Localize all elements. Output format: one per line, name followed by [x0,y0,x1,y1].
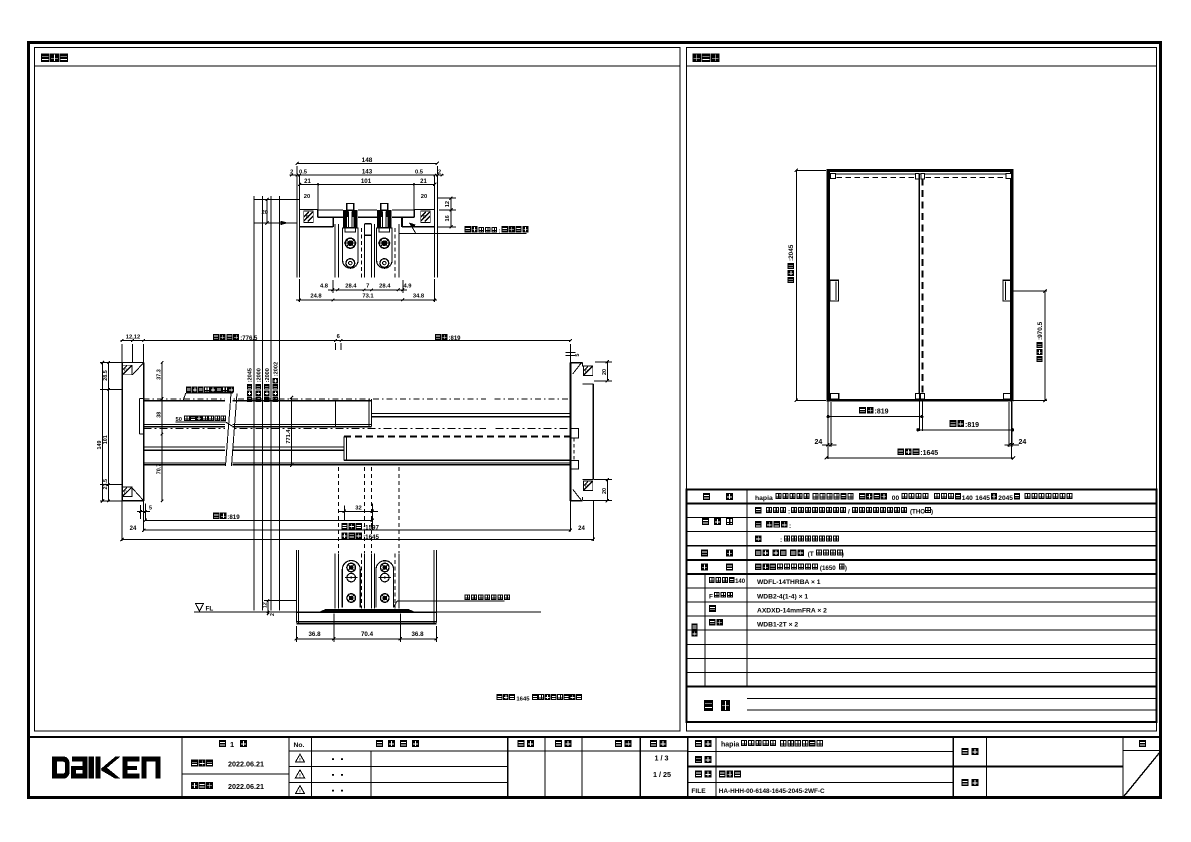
svg-text::819: :819 [965,422,979,429]
svg-text:hapia: hapia [755,495,773,502]
svg-text:28.4: 28.4 [379,284,391,290]
svg-text:148: 148 [362,157,373,164]
svg-text:1: 1 [230,740,234,749]
svg-text:): ) [845,565,847,572]
svg-text:2045: 2045 [998,495,1013,502]
svg-text:143: 143 [362,169,373,176]
svg-text:771.4: 771.4 [286,429,292,444]
svg-text::: : [499,229,501,235]
svg-text:24: 24 [578,526,585,532]
svg-text:23.5: 23.5 [103,479,109,490]
svg-text:24: 24 [130,526,137,532]
svg-text::776.5: :776.5 [240,336,258,342]
svg-text::2002: :2002 [273,362,279,376]
svg-text:C: C [124,490,127,495]
svg-text:36.8: 36.8 [308,631,321,638]
svg-text:FL: FL [206,605,214,612]
svg-text:C: C [585,484,588,489]
svg-text:WDB1-2T × 2: WDB1-2T × 2 [757,621,798,628]
svg-text:28.5: 28.5 [103,370,109,381]
svg-text:12: 12 [445,201,451,207]
svg-text::1645: :1645 [920,450,938,457]
svg-text:38: 38 [157,412,163,418]
svg-text:34.8: 34.8 [413,294,425,300]
svg-text:1645: 1645 [975,495,990,502]
svg-text:1 / 3: 1 / 3 [655,753,669,762]
svg-text:C: C [585,369,588,374]
svg-text:(THO: (THO [910,509,925,516]
svg-text:149: 149 [97,441,103,450]
svg-text:2: 2 [290,170,293,176]
svg-text::2000: :2000 [265,368,271,382]
svg-text:): ) [842,551,844,558]
svg-text::970.5: :970.5 [1037,321,1044,340]
svg-text:4.9: 4.9 [403,284,412,290]
svg-text:101: 101 [103,435,109,444]
svg-text:12,12: 12,12 [126,335,141,341]
svg-text:12: 12 [263,602,269,608]
svg-text:WDB2-4(1-4) × 1: WDB2-4(1-4) × 1 [757,593,808,600]
svg-text::: : [780,537,782,544]
svg-text:2: 2 [270,613,276,616]
svg-text:0.5: 0.5 [299,170,308,176]
svg-text:2022.06.21: 2022.06.21 [228,782,264,791]
svg-text:AXDXD-14mmFRA × 2: AXDXD-14mmFRA × 2 [757,607,827,614]
svg-text::819: :819 [449,336,462,342]
svg-text::819: :819 [875,409,889,416]
svg-text:00: 00 [892,495,900,502]
svg-text::: : [789,523,791,530]
svg-text:1645: 1645 [516,696,530,702]
svg-text:0.5: 0.5 [415,170,424,176]
svg-text:5: 5 [149,506,152,512]
svg-text:(T: (T [808,551,814,558]
svg-text:/: / [848,509,850,516]
svg-text:FILE: FILE [691,788,706,795]
svg-text:C: C [124,368,127,373]
svg-text:20: 20 [304,194,310,200]
svg-text:HA-HHH-00-6148-1645-2045-2WF-C: HA-HHH-00-6148-1645-2045-2WF-C [719,788,825,795]
svg-text:32: 32 [355,505,361,511]
svg-text:hapia: hapia [721,741,739,748]
svg-text:37.3: 37.3 [157,369,163,380]
svg-text:24.8: 24.8 [310,294,322,300]
svg-text::2045: :2045 [248,368,254,382]
svg-text:): ) [931,509,933,516]
svg-text:140: 140 [962,495,973,502]
svg-text:70.4: 70.4 [361,631,374,638]
svg-text:(1650: (1650 [820,565,836,572]
svg-text:20: 20 [262,210,268,216]
svg-text:2022.06.21: 2022.06.21 [228,760,264,769]
svg-text:20: 20 [602,369,608,375]
svg-text:24: 24 [815,439,823,446]
svg-text:7: 7 [366,284,369,290]
svg-text::2045: :2045 [788,244,795,261]
svg-text:73.1: 73.1 [362,294,374,300]
svg-text:5: 5 [575,354,581,357]
svg-text:21: 21 [420,179,427,185]
svg-text:20: 20 [602,488,608,494]
svg-text:2: 2 [438,170,441,176]
svg-text:24: 24 [1019,439,1027,446]
svg-text:F: F [709,593,713,600]
svg-text:21: 21 [304,179,311,185]
svg-text:WDFL-14THRBA × 1: WDFL-14THRBA × 1 [757,579,821,586]
svg-text:No.: No. [294,742,305,749]
svg-text:140: 140 [735,579,746,585]
svg-text:28.4: 28.4 [345,284,357,290]
svg-text:4.8: 4.8 [320,284,329,290]
svg-text:16: 16 [445,215,451,221]
svg-text:1 / 25: 1 / 25 [653,770,671,779]
svg-text::2000: :2000 [256,368,262,382]
svg-text::819: :819 [227,514,240,521]
svg-text::: : [788,509,790,516]
svg-text:20: 20 [421,194,427,200]
svg-text:36.8: 36.8 [411,631,424,638]
svg-text:101: 101 [361,178,372,185]
